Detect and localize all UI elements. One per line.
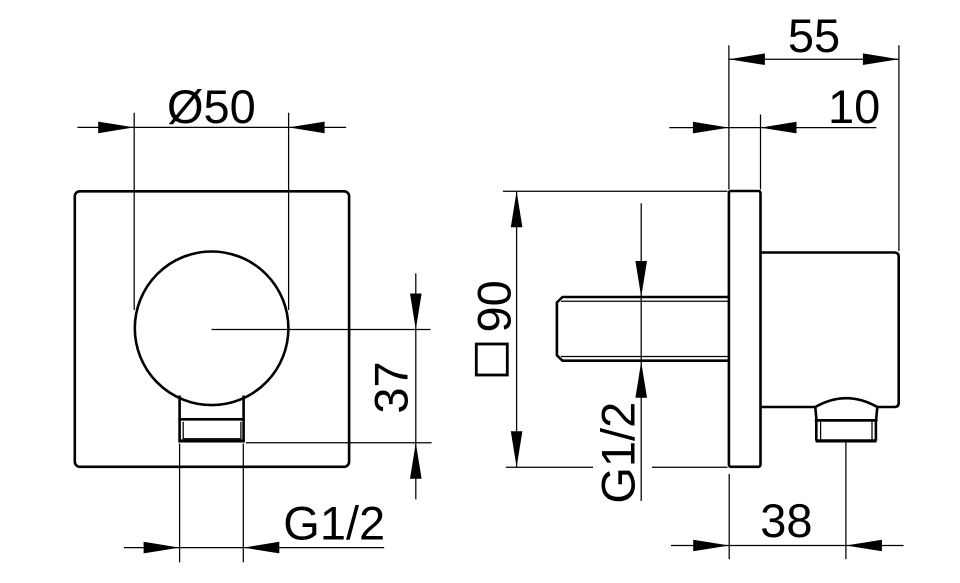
dim 38 dimension line xyxy=(671,545,904,547)
dim G1/2 extension line right xyxy=(242,444,244,563)
dim Ø50 arrow right xyxy=(289,122,325,134)
dim 55 extension line left xyxy=(728,45,730,189)
svg-text:37: 37 xyxy=(365,361,418,413)
front wall plate outline xyxy=(75,191,349,467)
dim 38 extension line left xyxy=(728,474,730,559)
body outline xyxy=(761,253,899,408)
svg-text:G1/2: G1/2 xyxy=(592,402,645,504)
dim 55 arrow left xyxy=(729,53,765,65)
dim Ø50 arrow left xyxy=(98,122,134,134)
outlet neck right side xyxy=(242,396,245,420)
nipple inner lines xyxy=(821,422,872,440)
supply pipe stub outline xyxy=(557,297,729,361)
outlet flange inner lines xyxy=(183,422,241,439)
dim square90 arrow down xyxy=(511,431,523,467)
outlet flange left side xyxy=(178,419,181,441)
centre line of circle xyxy=(212,329,431,331)
dim 38 arrow left xyxy=(693,540,729,552)
dim G1/2 arrow right xyxy=(243,542,279,554)
svg-text:90: 90 xyxy=(468,280,521,332)
supply pipe stub thread lines xyxy=(561,301,729,356)
dim square90 dimension line xyxy=(516,191,518,467)
dim G1/2 side arrow up xyxy=(635,362,647,398)
nipple top edge xyxy=(815,419,878,422)
outlet dome left side xyxy=(815,407,816,420)
dim G1/2 dimension line xyxy=(124,547,384,549)
dim Ø50 extension line left xyxy=(133,113,135,310)
dim 10 arrow left xyxy=(693,122,729,134)
dim Ø50 dimension line xyxy=(78,126,347,128)
dim G1/2 side arrow down xyxy=(635,261,647,297)
nipple outer sides xyxy=(816,420,876,440)
dim 38 centre line right xyxy=(845,442,847,559)
svg-text:55: 55 xyxy=(788,9,840,62)
outlet dome right side xyxy=(876,407,877,420)
dim 10 arrow right xyxy=(761,122,797,134)
dim square90 extension line bottom xyxy=(506,466,728,468)
svg-text:38: 38 xyxy=(760,494,812,547)
dim 37 extension line xyxy=(246,442,432,444)
dim 37 dimension line xyxy=(415,273,417,499)
dim 37 arrow down xyxy=(410,294,422,330)
dim Ø50 extension line right xyxy=(288,113,290,310)
dim 55 dimension line xyxy=(729,58,899,60)
dim 37 arrow up xyxy=(410,443,422,479)
dim 10 dimension line xyxy=(669,127,876,129)
dim square90 square symbol xyxy=(476,344,507,375)
body bottom edge left part xyxy=(761,406,816,409)
svg-text:Ø50: Ø50 xyxy=(167,80,256,133)
svg-text:10: 10 xyxy=(828,80,880,133)
dim G1/2 side dimension line xyxy=(640,203,642,501)
dim G1/2 arrow left xyxy=(144,542,180,554)
dim square90 extension line top xyxy=(503,190,728,192)
wall plate side outline xyxy=(729,191,761,467)
rosette circle xyxy=(135,251,289,405)
outlet flange bottom edge xyxy=(178,439,245,442)
outlet flange right side xyxy=(242,419,245,441)
outlet neck left side xyxy=(178,396,181,420)
dim 55 extension line right xyxy=(898,45,900,251)
nipple bottom edge xyxy=(816,439,877,442)
dim 55 arrow right xyxy=(863,53,899,65)
dim square90 arrow up xyxy=(511,191,523,227)
dim G1/2 extension line left xyxy=(179,444,181,563)
outlet flange divider xyxy=(178,418,245,421)
outlet dome xyxy=(815,398,877,407)
svg-text:G1/2: G1/2 xyxy=(283,497,385,550)
dim 10 extension line xyxy=(760,115,762,190)
dim 38 arrow right xyxy=(846,540,882,552)
